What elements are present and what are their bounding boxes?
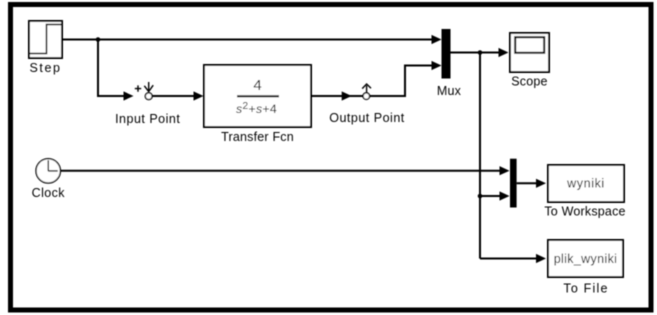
- wire Input Point to Transfer Fcn: [152, 91, 203, 100]
- input point marker Input Point: [115, 82, 180, 126]
- svg-text:Output Point: Output Point: [329, 111, 405, 125]
- block Step: [29, 21, 62, 75]
- svg-text:To File: To File: [563, 282, 608, 296]
- block Scope: [510, 33, 549, 89]
- svg-text:Input Point: Input Point: [115, 112, 180, 126]
- svg-text:plik_wyniki: plik_wyniki: [554, 252, 618, 266]
- block Transfer Fcn: [204, 65, 311, 144]
- svg-text:Mux: Mux: [437, 84, 462, 98]
- wire Step to Mux input 1: [62, 35, 442, 44]
- svg-text:Step: Step: [29, 61, 61, 75]
- wire Output Point to Mux input 2: [370, 61, 442, 96]
- wire vertical branch down from Scope wire: [479, 53, 481, 259]
- block Clock: [32, 159, 66, 200]
- wire Mux to Scope: [451, 48, 509, 57]
- block To Workspace wyniki: [544, 165, 625, 219]
- wire vertical branch to To File: [480, 254, 546, 263]
- svg-text:Scope: Scope: [511, 75, 547, 89]
- svg-text:To Workspace: To Workspace: [544, 205, 625, 219]
- wire Clock to Mux1 input 1: [60, 166, 509, 175]
- node junction on Step wire: [96, 37, 101, 42]
- svg-text:wyniki: wyniki: [566, 177, 605, 191]
- wire Mux1 to To Workspace: [517, 179, 546, 188]
- mux Mux1 lower: [510, 159, 517, 208]
- wire branch down to Input Point: [98, 40, 134, 101]
- output point marker Output Point: [329, 84, 405, 125]
- node junction on vertical wire: [478, 194, 483, 199]
- svg-text:4: 4: [253, 77, 261, 94]
- svg-text:Transfer Fcn: Transfer Fcn: [221, 130, 294, 144]
- wire branch to Mux1 input 2: [480, 191, 510, 200]
- svg-text:Clock: Clock: [32, 186, 66, 200]
- svg-text:s2+s+4: s2+s+4: [236, 101, 277, 116]
- wire Transfer Fcn to Output Point: [311, 91, 363, 100]
- node junction on Scope wire: [478, 50, 483, 55]
- mux Mux: [437, 29, 462, 98]
- block To File plik_wyniki: [548, 240, 623, 296]
